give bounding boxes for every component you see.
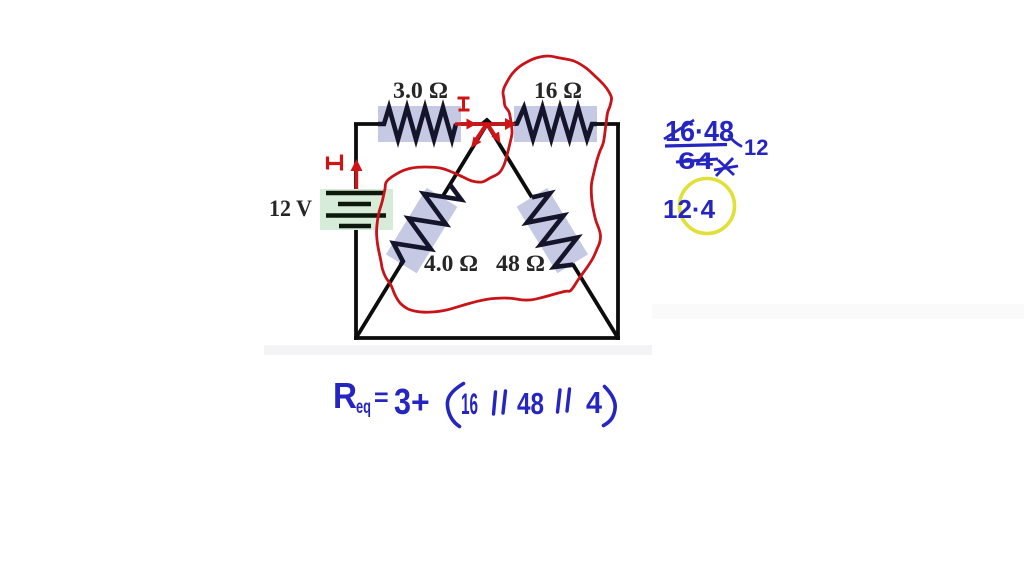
blue open paren: [447, 384, 463, 427]
battery B1 plate 1 (long): [326, 191, 384, 196]
svg-text:3.0 Ω: 3.0 Ω: [393, 78, 448, 103]
resistor R2 16 Ω (highlight box): [514, 106, 597, 142]
red label I at apex: [458, 98, 470, 110]
resistor R3 4.0 Ω (highlight box, rotated on left diagonal): [386, 188, 457, 273]
yellow circle highlight: [680, 179, 735, 234]
battery B1 plate 2 (short): [338, 202, 371, 207]
svg-text:48: 48: [517, 386, 544, 421]
blue strike through 64: [676, 159, 718, 162]
red label I (rotated) at battery: [328, 155, 342, 171]
red current arrow into 16 Ω (two heads): [455, 122, 508, 126]
svg-text:eq: eq: [356, 397, 371, 418]
fainter gray band right side: [652, 304, 1024, 319]
resistor R4 48 Ω (highlight box, rotated on right diagonal): [517, 188, 588, 273]
battery B1 plate 3 (long): [326, 213, 386, 218]
svg-text:=: =: [374, 384, 389, 412]
red arrow down-left diagonal: [476, 125, 486, 140]
wire left diagonal (apex node to bottom-left node): [356, 124, 487, 338]
svg-text:16 Ω: 16 Ω: [534, 78, 582, 103]
resistor R1 3.0 Ω (zigzag): [378, 108, 456, 140]
resistor R1 3.0 Ω (highlight box): [378, 106, 461, 142]
svg-text:R: R: [333, 375, 357, 416]
svg-text:4.0 Ω: 4.0 Ω: [424, 251, 478, 276]
wire right diagonal (apex node to bottom-right node): [487, 124, 618, 338]
svg-text:12 V: 12 V: [269, 196, 312, 221]
svg-text:16: 16: [461, 388, 478, 421]
blue tail swoosh on 8: [729, 136, 741, 146]
battery B1 plate 4 (short): [339, 224, 371, 229]
svg-text:4: 4: [586, 385, 603, 420]
resistor R2 16 Ω (zigzag): [514, 108, 597, 140]
blue fraction bar: [665, 145, 727, 147]
wire left vertical upper (battery branch): [354, 124, 358, 192]
red current arrow at battery (upward): [355, 167, 358, 189]
blue parallel bars 1: [494, 391, 506, 414]
faint gray band under circuit: [264, 345, 652, 355]
svg-text:12: 12: [744, 135, 768, 160]
blue parallel bars 2: [558, 389, 570, 412]
wire bottom horizontal: [354, 336, 620, 340]
resistor R4 48 Ω (zigzag): [517, 188, 588, 274]
resistor R3 4.0 Ω (zigzag): [386, 175, 465, 273]
blue crossed x after 64: [714, 158, 738, 176]
wire top horizontal: [354, 122, 620, 126]
node apex junction bump: [479, 118, 494, 125]
svg-text:3: 3: [394, 381, 411, 422]
wire left vertical lower: [354, 226, 358, 340]
svg-text:+: +: [411, 384, 430, 420]
wire right vertical: [616, 124, 620, 340]
blue close paren: [604, 387, 616, 426]
red loop annotation around 16Ω / 48Ω / 4Ω: [377, 56, 612, 312]
blue strike through 16: [664, 120, 694, 139]
svg-text:12·4: 12·4: [663, 194, 716, 224]
red arrow down-right diagonal: [488, 125, 495, 136]
battery B1 12 V (highlight box): [320, 189, 393, 230]
svg-text:48 Ω: 48 Ω: [496, 251, 545, 276]
